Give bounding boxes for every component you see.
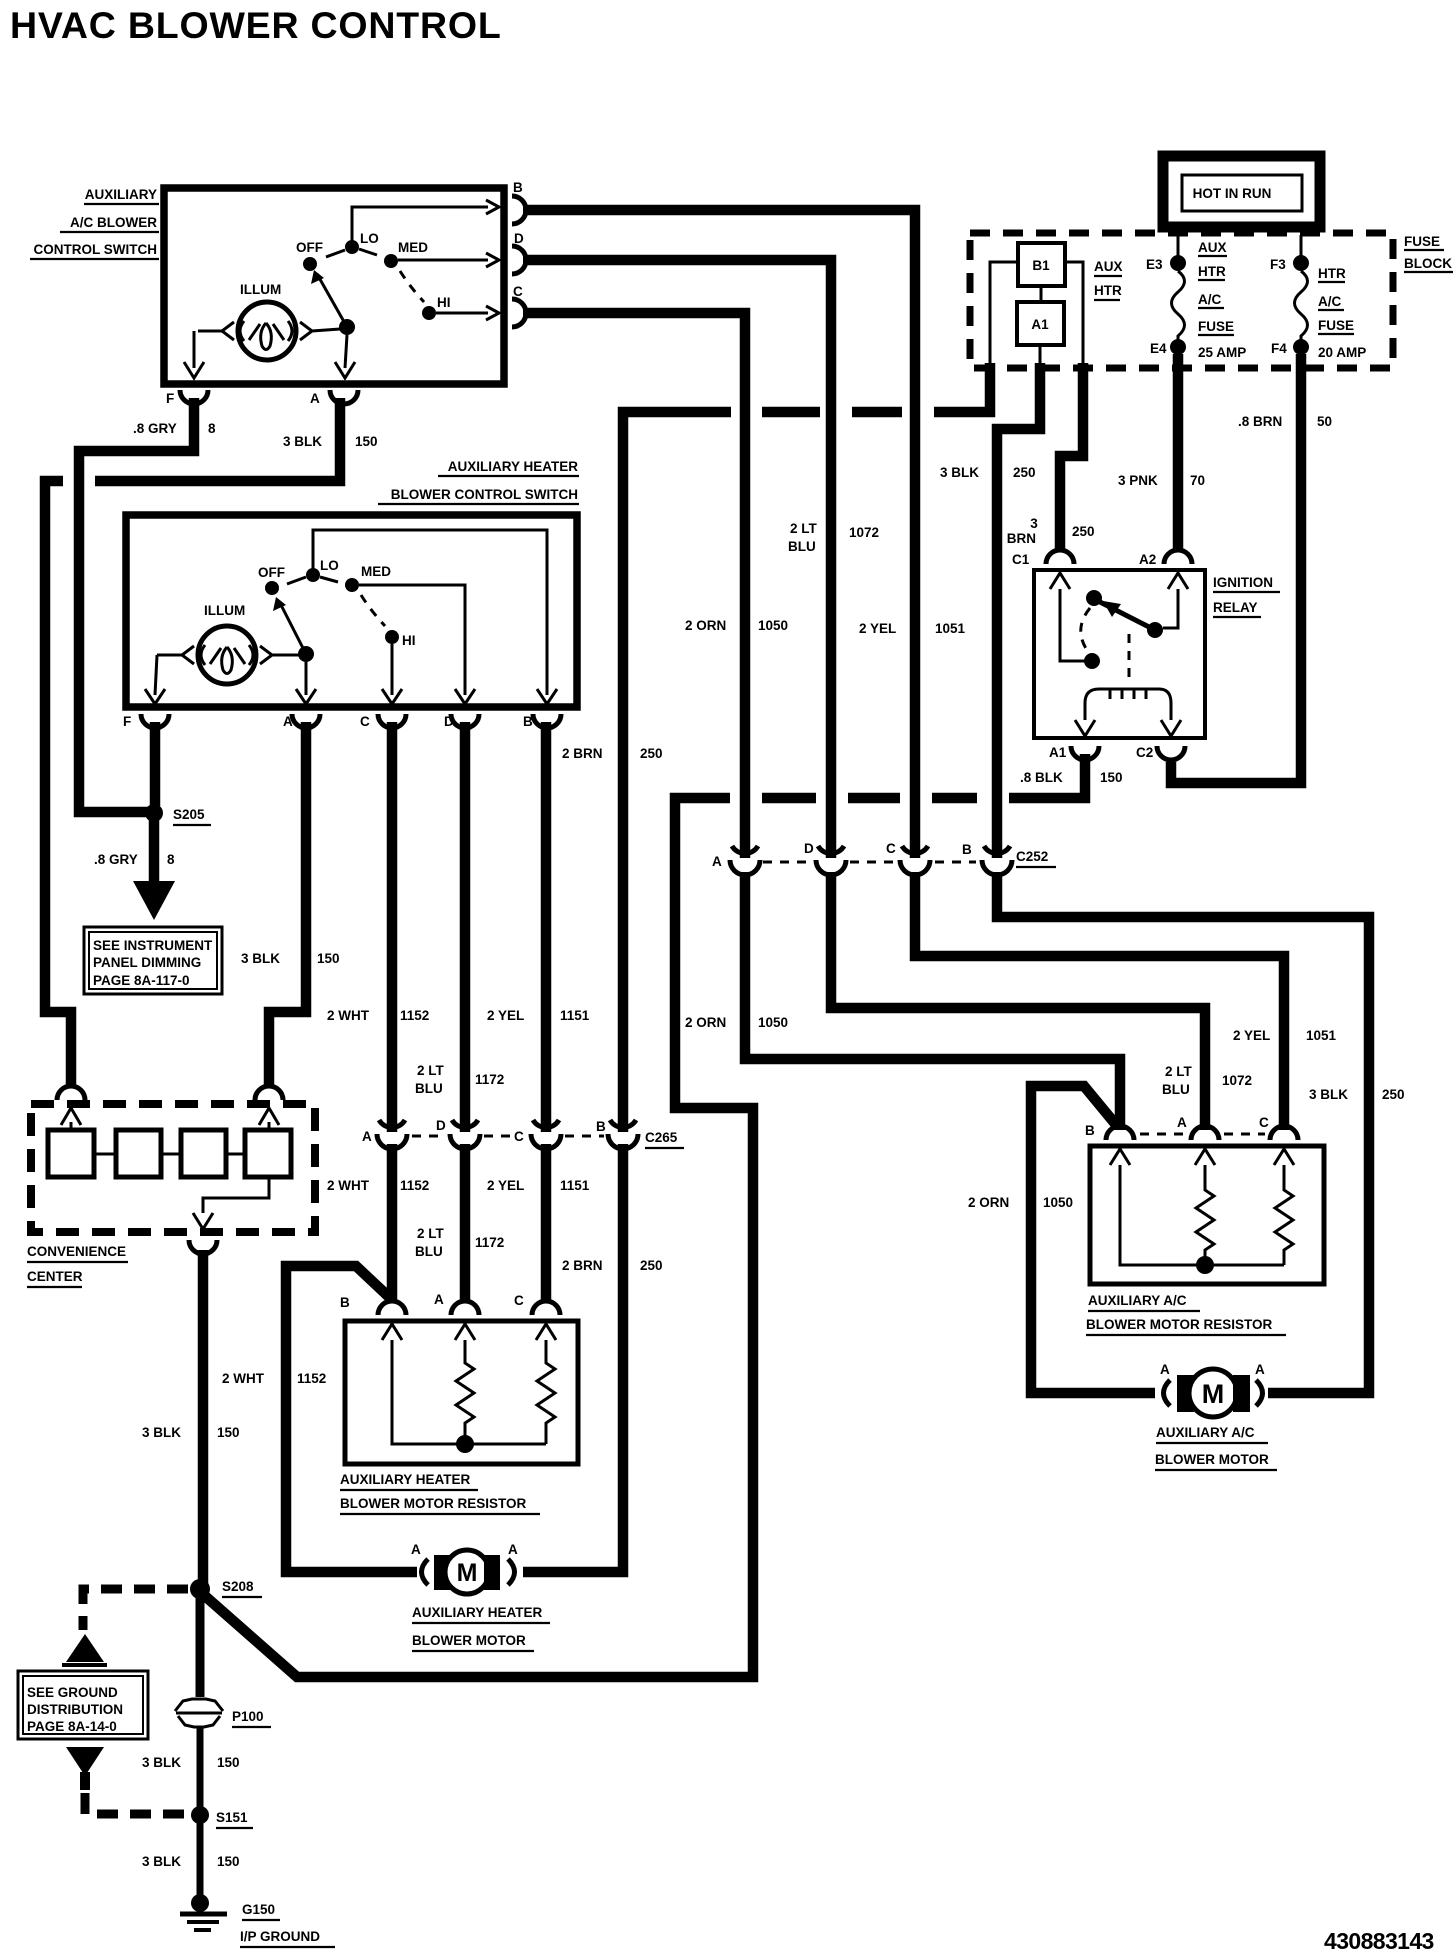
- wire 3 BLK 150 S208 to P100: [196, 1597, 205, 1697]
- svg-text:FUSE: FUSE: [1318, 318, 1354, 333]
- relay pin A1 arrow: [1075, 720, 1095, 736]
- svg-text:250: 250: [640, 1258, 663, 1273]
- svg-text:3 BLK: 3 BLK: [1309, 1087, 1348, 1102]
- convenience center fuse 2: [116, 1130, 161, 1177]
- svg-text:3: 3: [1030, 516, 1038, 531]
- lamp lead arrows (heater switch): [157, 646, 194, 664]
- svg-text:FUSE: FUSE: [1404, 234, 1440, 249]
- svg-text:B1: B1: [1032, 258, 1050, 273]
- svg-text:PANEL DIMMING: PANEL DIMMING: [93, 955, 201, 970]
- svg-text:2 BRN: 2 BRN: [562, 746, 603, 761]
- svg-text:2 ORN: 2 ORN: [968, 1195, 1009, 1210]
- wire 2 LT BLU 1172 C265-D to heater resistor A: [460, 1144, 471, 1300]
- wire 2 YEL 1151 heater pin B to C265-C: [541, 722, 552, 1132]
- switch contact HI (A/C): [422, 306, 436, 320]
- svg-text:AUX: AUX: [1198, 240, 1227, 255]
- svg-text:250: 250: [640, 746, 663, 761]
- wire lamp to pin F (heater): [155, 655, 157, 695]
- convenience center fuse 4: [245, 1130, 291, 1177]
- svg-text:HI: HI: [402, 633, 416, 648]
- svg-text:S151: S151: [216, 1810, 248, 1825]
- svg-text:C: C: [360, 714, 370, 729]
- svg-text:E3: E3: [1146, 257, 1163, 272]
- wire .8 BRN 50 from fuse F4 to relay C2: [1171, 354, 1301, 783]
- svg-text:BLOWER MOTOR: BLOWER MOTOR: [412, 1633, 526, 1648]
- lamp lead arrows (A/C switch): [198, 322, 234, 340]
- svg-text:3 BLK: 3 BLK: [940, 465, 979, 480]
- svg-text:S208: S208: [222, 1579, 254, 1594]
- svg-text:3 PNK: 3 PNK: [1118, 473, 1158, 488]
- wire: C output of A/C switch to C252-A: [523, 313, 745, 858]
- A/C resistor connector dashed line: [1140, 1133, 1186, 1136]
- svg-text:B: B: [513, 180, 523, 195]
- svg-text:2 YEL: 2 YEL: [859, 621, 896, 636]
- svg-text:F: F: [166, 391, 174, 406]
- svg-text:BLU: BLU: [415, 1244, 443, 1259]
- svg-text:S205: S205: [173, 807, 205, 822]
- label AUXILIARY A/C BLOWER CONTROL SWITCH: [30, 187, 159, 259]
- svg-text:150: 150: [355, 434, 378, 449]
- svg-text:A: A: [434, 1292, 444, 1307]
- label AUXILIARY HEATER BLOWER CONTROL SWITCH: [378, 459, 579, 504]
- svg-text:E4: E4: [1150, 341, 1167, 356]
- switch common junction (A/C): [339, 319, 355, 335]
- heater resistor junction dot: [456, 1435, 474, 1453]
- svg-text:A: A: [310, 391, 320, 406]
- svg-text:150: 150: [317, 951, 340, 966]
- svg-text:CONVENIENCE: CONVENIENCE: [27, 1244, 126, 1259]
- svg-text:B: B: [1085, 1123, 1095, 1138]
- convenience center left input connector: [57, 1086, 85, 1100]
- svg-text:1050: 1050: [758, 618, 788, 633]
- svg-text:A/C: A/C: [1198, 292, 1222, 307]
- label AUXILIARY A/C BLOWER MOTOR RESISTOR: [1086, 1293, 1286, 1335]
- fuse AUX HTR A/C FUSE 25 AMP (E3-E4): [1146, 235, 1246, 360]
- switch arm pointing to OFF (A/C): [317, 274, 347, 327]
- svg-text:2 LT: 2 LT: [1165, 1064, 1193, 1079]
- svg-text:250: 250: [1382, 1087, 1405, 1102]
- svg-text:BLU: BLU: [1162, 1082, 1190, 1097]
- wire 3 BLK 150 from pin A (A/C) to convenience center: [95, 398, 340, 481]
- svg-text:D: D: [436, 1118, 446, 1133]
- wire .8 GRY 8 from S205 down to dimming reference: [149, 820, 160, 884]
- svg-text:HVAC BLOWER CONTROL: HVAC BLOWER CONTROL: [10, 4, 502, 46]
- svg-text:A: A: [1255, 1362, 1265, 1377]
- svg-text:MED: MED: [361, 564, 391, 579]
- svg-text:8: 8: [167, 852, 175, 867]
- auxiliary A/C blower motor resistor box: [1090, 1146, 1324, 1284]
- connector C265: [362, 1118, 684, 1149]
- relay contact from A2: [1163, 589, 1178, 628]
- svg-text:FUSE: FUSE: [1198, 319, 1234, 334]
- svg-text:A: A: [1177, 1115, 1187, 1130]
- svg-text:2 YEL: 2 YEL: [1233, 1028, 1270, 1043]
- svg-text:D: D: [804, 841, 814, 856]
- svg-text:1172: 1172: [475, 1235, 504, 1250]
- heater resistor internal wire from B: [392, 1340, 546, 1444]
- svg-text:F: F: [123, 714, 131, 729]
- convenience center fuse 3: [181, 1130, 226, 1177]
- svg-text:2 ORN: 2 ORN: [685, 1015, 726, 1030]
- svg-text:CENTER: CENTER: [27, 1269, 83, 1284]
- svg-text:LO: LO: [360, 231, 379, 246]
- svg-text:2 LT: 2 LT: [417, 1063, 445, 1078]
- svg-text:3 BLK: 3 BLK: [283, 434, 322, 449]
- svg-text:F3: F3: [1270, 257, 1286, 272]
- svg-text:1050: 1050: [758, 1015, 788, 1030]
- svg-text:AUXILIARY HEATER: AUXILIARY HEATER: [448, 459, 579, 474]
- svg-text:25 AMP: 25 AMP: [1198, 345, 1246, 360]
- convenience center links: [94, 1153, 245, 1156]
- fuse HTR A/C FUSE 20 AMP (F3-F4): [1270, 235, 1366, 360]
- auxiliary A/C blower control switch box: [164, 188, 504, 384]
- wire from A1 down: [1039, 345, 1042, 366]
- svg-text:20 AMP: 20 AMP: [1318, 345, 1366, 360]
- svg-text:1072: 1072: [1222, 1073, 1252, 1088]
- wire 2 WHT 1152 C265-A to heater resistor B: [387, 1144, 398, 1300]
- wire 3 BLK 150 S151 to G150: [197, 1823, 204, 1900]
- auxiliary heater blower motor resistor box: [345, 1321, 578, 1464]
- svg-text:2 YEL: 2 YEL: [487, 1178, 524, 1193]
- relay dashed actuator link: [1128, 634, 1131, 682]
- svg-text:B: B: [340, 1295, 350, 1310]
- svg-text:CONTROL SWITCH: CONTROL SWITCH: [34, 242, 158, 257]
- svg-text:8: 8: [208, 421, 216, 436]
- svg-text:B: B: [596, 1119, 606, 1134]
- A/C resistor junction dot: [1196, 1256, 1214, 1274]
- svg-text:2 BRN: 2 BRN: [562, 1258, 603, 1273]
- svg-text:BLOWER CONTROL SWITCH: BLOWER CONTROL SWITCH: [391, 487, 578, 502]
- svg-text:1151: 1151: [560, 1178, 590, 1193]
- svg-text:SEE INSTRUMENT: SEE INSTRUMENT: [93, 938, 213, 953]
- heater resistor element 2: [537, 1340, 555, 1444]
- switch contact LO (heater): [306, 568, 320, 582]
- relay coil: [1085, 689, 1171, 720]
- svg-text:I/P GROUND: I/P GROUND: [240, 1929, 320, 1944]
- A/C resistor element 1: [1196, 1165, 1214, 1265]
- dashed wire S208 to ground distribution reference: [83, 1589, 188, 1630]
- convenience center right input connector: [255, 1086, 283, 1100]
- svg-text:150: 150: [1100, 770, 1123, 785]
- svg-text:BLOWER MOTOR RESISTOR: BLOWER MOTOR RESISTOR: [340, 1496, 527, 1511]
- svg-text:3 BLK: 3 BLK: [142, 1854, 181, 1869]
- wire 3 BLK 250 from A1 to C252-B: [997, 363, 1040, 858]
- auxiliary A/C blower motor: [1155, 1362, 1277, 1470]
- svg-text:3 BLK: 3 BLK: [142, 1755, 181, 1770]
- wire HI to pin C (heater): [391, 644, 394, 695]
- splice S205: [145, 804, 163, 822]
- wire 3 BLK 150 P100 to S151: [197, 1727, 204, 1808]
- wire 2 ORN 1050 branch to A/C blower motor: [1031, 1086, 1155, 1393]
- wire 2 LT BLU 1172 heater pin D to C265-D: [460, 722, 471, 1132]
- svg-text:2 WHT: 2 WHT: [327, 1178, 370, 1193]
- svg-text:70: 70: [1190, 473, 1205, 488]
- svg-text:A1: A1: [1031, 317, 1049, 332]
- wire 2 ORN 1050 below C252-A: [745, 872, 1120, 1130]
- wire .8 GRY 8 from heater pin F to S205: [150, 722, 161, 806]
- wire 2 YEL 1151 C265-C to heater resistor C: [541, 1144, 552, 1300]
- wire: D output of A/C switch to C252-D: [523, 260, 831, 858]
- convenience center fuse 1: [48, 1130, 94, 1177]
- A/C resistor internal wire from B: [1120, 1165, 1284, 1265]
- grommet P100: [175, 1699, 271, 1727]
- wire HI to C output (A/C): [436, 312, 488, 315]
- svg-text:ILLUM: ILLUM: [204, 603, 245, 618]
- svg-text:C: C: [886, 841, 896, 856]
- svg-text:HOT IN RUN: HOT IN RUN: [1193, 186, 1272, 201]
- svg-text:2 LT: 2 LT: [790, 521, 818, 536]
- svg-text:D: D: [514, 231, 524, 246]
- svg-text:.8 GRY: .8 GRY: [94, 852, 138, 867]
- svg-text:OFF: OFF: [296, 240, 323, 255]
- wire lamp to pin F (A/C): [193, 331, 196, 368]
- wire from B1 right to relay feed: [1065, 262, 1083, 366]
- illumination lamp ILLUM (heater switch): [198, 603, 256, 684]
- svg-text:1050: 1050: [1043, 1195, 1073, 1210]
- svg-text:SEE GROUND: SEE GROUND: [27, 1685, 118, 1700]
- svg-text:PAGE 8A-117-0: PAGE 8A-117-0: [93, 973, 190, 988]
- relay pin C2 arrow: [1161, 720, 1181, 736]
- wire 3 BLK 150 convenience center to S208: [198, 1250, 209, 1585]
- relay common contact: [1086, 590, 1102, 606]
- dashed travel arc (A/C): [400, 271, 424, 302]
- switch contact MED (A/C): [384, 254, 398, 268]
- wire 2 BRN 250 from B1 to C265-B (with crossover gaps): [934, 363, 990, 412]
- wire 2 LT BLU 1072 below C252-D: [831, 872, 1205, 1130]
- svg-text:A2: A2: [1139, 552, 1156, 567]
- wire 2 WHT 1152 heater pin C to C265-A: [387, 722, 398, 1132]
- svg-text:C2: C2: [1136, 745, 1153, 760]
- wire LO to pin B (heater): [313, 530, 547, 695]
- svg-text:B: B: [962, 842, 972, 857]
- svg-text:AUX: AUX: [1094, 259, 1123, 274]
- wire MED to D output (A/C): [398, 259, 488, 262]
- svg-text:A/C: A/C: [1318, 294, 1342, 309]
- label IGNITION RELAY: [1213, 575, 1280, 617]
- svg-text:150: 150: [217, 1854, 240, 1869]
- svg-text:A: A: [712, 854, 722, 869]
- svg-text:F4: F4: [1271, 341, 1287, 356]
- svg-text:BRN: BRN: [1007, 531, 1036, 546]
- connector terminal B1: [1018, 243, 1065, 286]
- svg-text:250: 250: [1013, 465, 1036, 480]
- HOT IN RUN box: [1163, 156, 1320, 227]
- arrow to ground distribution (upper): [66, 1634, 104, 1662]
- svg-text:DISTRIBUTION: DISTRIBUTION: [27, 1702, 123, 1717]
- label CONVENIENCE CENTER: [27, 1244, 128, 1287]
- svg-text:A1: A1: [1049, 745, 1067, 760]
- svg-text:C265: C265: [645, 1130, 678, 1145]
- svg-text:ILLUM: ILLUM: [240, 282, 281, 297]
- svg-text:3 BLK: 3 BLK: [142, 1425, 181, 1440]
- svg-text:LO: LO: [320, 558, 339, 573]
- svg-text:HI: HI: [437, 295, 451, 310]
- svg-text:1051: 1051: [1306, 1028, 1337, 1043]
- svg-text:250: 250: [1072, 524, 1095, 539]
- svg-text:2 YEL: 2 YEL: [487, 1008, 524, 1023]
- svg-text:C1: C1: [1012, 552, 1030, 567]
- svg-text:M: M: [457, 1559, 478, 1587]
- svg-text:A: A: [362, 1129, 372, 1144]
- wire 3 BLK 150 heater pin A to convenience center: [269, 722, 306, 1085]
- A/C resistor element 2: [1275, 1165, 1293, 1265]
- svg-text:1152: 1152: [400, 1178, 429, 1193]
- svg-text:.8 BLK: .8 BLK: [1020, 770, 1063, 785]
- svg-text:C: C: [1259, 1115, 1269, 1130]
- wire .8 BLK 150 from relay A1 (dashed look with crossover gaps): [1009, 754, 1085, 798]
- illumination lamp ILLUM (A/C switch): [238, 282, 296, 360]
- svg-text:1151: 1151: [560, 1008, 590, 1023]
- fuse block dashed border: [970, 233, 1393, 368]
- svg-text:OFF: OFF: [258, 565, 285, 580]
- svg-text:150: 150: [217, 1425, 240, 1440]
- wire 2 WHT 1152 branch resistor B to heater motor: [286, 1266, 417, 1572]
- wire from B1 loop to 2 BRN feed: [990, 262, 1018, 365]
- wire 3 PNK 70 from fuse E4 to relay A2: [1173, 354, 1184, 549]
- svg-text:PAGE 8A-14-0: PAGE 8A-14-0: [27, 1719, 117, 1734]
- relay dashed travel arc: [1081, 608, 1090, 653]
- svg-text:IGNITION: IGNITION: [1213, 575, 1273, 590]
- svg-text:AUXILIARY HEATER: AUXILIARY HEATER: [412, 1605, 543, 1620]
- svg-text:1072: 1072: [849, 525, 879, 540]
- convenience center output connector: [189, 1240, 217, 1254]
- wire 2 YEL 1051 below C252-C: [915, 872, 1284, 1130]
- svg-text:G150: G150: [242, 1902, 275, 1917]
- svg-text:3 BLK: 3 BLK: [241, 951, 280, 966]
- convenience center dashed box: [31, 1104, 315, 1232]
- svg-text:2 LT: 2 LT: [417, 1226, 445, 1241]
- svg-text:A: A: [411, 1542, 421, 1557]
- reference box SEE INSTRUMENT PANEL DIMMING PAGE 8A-117-0: [84, 927, 222, 994]
- auxiliary heater blower control switch box: [126, 515, 577, 707]
- relay contact from C1: [1060, 589, 1085, 661]
- svg-text:1172: 1172: [475, 1072, 504, 1087]
- svg-text:C: C: [514, 1293, 524, 1308]
- ignition relay box: [1034, 570, 1205, 738]
- auxiliary heater blower motor: [411, 1542, 550, 1651]
- splice S151: [191, 1806, 209, 1824]
- svg-text:BLOWER MOTOR RESISTOR: BLOWER MOTOR RESISTOR: [1086, 1317, 1273, 1332]
- svg-text:AUXILIARY: AUXILIARY: [85, 187, 157, 202]
- wire common to pin A (heater): [305, 662, 308, 695]
- heater resistor element 1: [456, 1340, 474, 1444]
- connector C252: [712, 841, 1056, 875]
- svg-text:1051: 1051: [935, 621, 966, 636]
- dashed wire to S151: [85, 1793, 188, 1814]
- svg-text:430883143: 430883143: [1324, 1928, 1434, 1954]
- switch contact MED (heater): [345, 578, 359, 592]
- svg-text:C: C: [514, 1129, 524, 1144]
- label AUX HTR: [1094, 259, 1123, 300]
- wire 2 BRN 250: B output of A/C switch to C252-C: [523, 210, 915, 858]
- wire .8 GRY 8 from pin F (A/C) to S205: [79, 398, 194, 812]
- wire LO to B output (A/C): [352, 207, 488, 242]
- svg-text:150: 150: [217, 1755, 240, 1770]
- switch contact LO (A/C): [345, 240, 359, 254]
- svg-text:HTR: HTR: [1198, 264, 1226, 279]
- svg-text:1152: 1152: [400, 1008, 429, 1023]
- svg-text:1152: 1152: [297, 1371, 326, 1386]
- svg-text:P100: P100: [232, 1709, 264, 1724]
- svg-text:.8 GRY: .8 GRY: [133, 421, 177, 436]
- svg-text:BLU: BLU: [788, 539, 816, 554]
- svg-text:AUXILIARY A/C: AUXILIARY A/C: [1088, 1293, 1187, 1308]
- arrow from ground distribution (lower): [66, 1747, 104, 1776]
- switch contact OFF (A/C): [303, 257, 317, 271]
- connector terminal A1: [1017, 302, 1064, 345]
- svg-text:2 WHT: 2 WHT: [222, 1371, 265, 1386]
- switch contact HI (heater): [385, 630, 399, 644]
- wire 2 BRN 250 C265-B to heater motor: [523, 1144, 623, 1572]
- svg-text:2 WHT: 2 WHT: [327, 1008, 370, 1023]
- svg-text:AUXILIARY HEATER: AUXILIARY HEATER: [340, 1472, 471, 1487]
- wire MED to pin D (heater): [359, 585, 465, 695]
- svg-text:BLU: BLU: [415, 1081, 443, 1096]
- svg-text:C252: C252: [1016, 849, 1048, 864]
- svg-text:.8 BRN: .8 BRN: [1238, 414, 1282, 429]
- svg-text:AUXILIARY A/C: AUXILIARY A/C: [1156, 1425, 1255, 1440]
- svg-text:HTR: HTR: [1094, 283, 1122, 298]
- ground G150 I/P GROUND: [180, 1894, 335, 1947]
- svg-text:RELAY: RELAY: [1213, 600, 1258, 615]
- dashed travel arc (heater): [361, 595, 385, 626]
- reference box SEE GROUND DISTRIBUTION PAGE 8A-14-0: [18, 1671, 148, 1739]
- svg-text:50: 50: [1317, 414, 1332, 429]
- arrow to instrument panel dimming: [133, 881, 175, 920]
- relay arm: [1100, 602, 1155, 630]
- svg-text:2 ORN: 2 ORN: [685, 618, 726, 633]
- svg-text:A/C BLOWER: A/C BLOWER: [70, 215, 157, 230]
- svg-text:BLOWER MOTOR: BLOWER MOTOR: [1155, 1452, 1269, 1467]
- switch arm pointing to OFF (heater): [279, 601, 306, 654]
- svg-text:A: A: [508, 1542, 518, 1557]
- wire 3 BLK 250 below C252-B to A/C motor: [997, 872, 1369, 1393]
- label FUSE BLOCK: [1404, 234, 1453, 272]
- switch contact OFF (heater): [265, 581, 279, 595]
- wire 3 BRN 250 from junction to relay C1: [1060, 363, 1083, 549]
- svg-text:M: M: [1202, 1379, 1225, 1409]
- splice S208: [190, 1579, 210, 1599]
- wire common to pin A (A/C): [345, 335, 347, 368]
- svg-text:BLOCK: BLOCK: [1404, 256, 1452, 271]
- svg-text:MED: MED: [398, 240, 428, 255]
- convenience center output wire: [203, 1177, 269, 1213]
- svg-text:A: A: [1160, 1362, 1170, 1377]
- label AUXILIARY HEATER BLOWER MOTOR RESISTOR: [340, 1472, 540, 1514]
- switch common junction (heater): [298, 646, 314, 662]
- link between B1 and A1: [1040, 286, 1043, 302]
- svg-text:HTR: HTR: [1318, 266, 1346, 281]
